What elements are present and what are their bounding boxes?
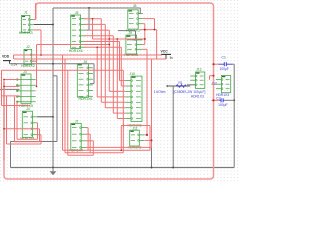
wire J11 pin1	[145, 134, 147, 136]
wire red x119.5	[119, 42, 121, 81]
wire red x147	[146, 49, 148, 135]
wire J12 pin2 stub	[212, 83, 216, 85]
wire J7 pin2	[86, 133, 90, 135]
wire to J10 pin3	[109, 90, 125, 92]
wire into J6 pin4	[90, 83, 94, 85]
connector (None)	[216, 76, 231, 93]
svg-text:100μF: 100μF	[218, 103, 227, 107]
wire red x62.5	[62, 55, 64, 150]
wire J1 pin3	[34, 29, 41, 31]
wire red x90.2	[89, 134, 91, 153]
wire red x209.5	[209, 76, 211, 80]
wire red y30.1	[89, 29, 109, 31]
wire grey x89 to J5 pin3	[88, 8, 90, 30]
junction y47.2/x97.2	[96, 46, 98, 48]
wire red x144.8	[144, 24, 146, 45]
wire J9 pin3	[142, 48, 147, 50]
wire C2 left red	[212, 99, 220, 101]
wire red y150.2	[63, 149, 151, 151]
wire red x109.3	[108, 30, 110, 91]
wire red y155.3	[68, 154, 94, 156]
wire J5 pin1	[85, 18, 102, 20]
VDD stub	[9, 61, 11, 64]
wire grey y141.5	[11, 141, 58, 143]
connector J8 (HDR1X3)	[126, 4, 143, 33]
wire grey top y8	[53, 7, 140, 9]
wire red y141.8	[15, 141, 40, 143]
VCC bar	[161, 53, 171, 55]
wire J4 pin1 to x53	[37, 116, 53, 118]
wire R1 lead grey y86	[167, 85, 191, 87]
svg-text:R1: R1	[178, 81, 182, 85]
wire red big loop (top y3, right x213.5, bottom y179, left x4)	[4, 3, 214, 179]
wire red x151.5 to J11 pin2	[151, 59, 153, 147]
connector J9 (HDR1X3)	[124, 31, 142, 57]
wire J5 pin6	[85, 46, 122, 48]
wire C1 left red	[214, 63, 219, 65]
wire red left x4 overlay	[3, 80, 5, 161]
wire grey into J13 pin3	[187, 84, 196, 86]
wire red y29.6	[140, 29, 157, 31]
wire J11 pin2	[145, 139, 152, 141]
wire red x65	[64, 59, 66, 153]
svg-text:VCC: VCC	[161, 49, 169, 53]
svg-text:J13: J13	[196, 68, 202, 72]
wire J7 pin4 long y147.4	[86, 146, 152, 148]
wire red x37.5	[37, 123, 39, 140]
wire J2 pin2 jog	[32, 60, 37, 62]
wire grey vertical x53	[52, 8, 54, 168]
wire to J10 pin2	[121, 85, 125, 87]
wire red x67.8	[67, 70, 69, 155]
svg-text:J10: J10	[129, 72, 135, 76]
junction C2/x234.2	[233, 99, 235, 101]
wire grey x151.5 low	[151, 147, 153, 167]
wire red x123.3	[122, 70, 124, 153]
wire red x36.5	[36, 45, 38, 87]
wire 3.3V net y63.8	[10, 63, 94, 65]
junction x53/J1p2	[52, 24, 54, 26]
wire red y125.5 J10 label	[121, 125, 150, 127]
svg-text:J12: J12	[212, 81, 217, 85]
wire red x17	[16, 102, 18, 140]
wire red y44.5	[37, 44, 110, 46]
svg-text:HDR1X6: HDR1X6	[69, 49, 83, 53]
junction loop/C2	[212, 99, 214, 101]
wire grey x234.2 right	[233, 64, 235, 167]
junction bus/x173.2	[172, 167, 174, 169]
VDD bar	[3, 60, 11, 62]
wire grey y30.6 J8 label	[118, 30, 136, 32]
wire grey x10.5 down	[10, 142, 12, 168]
svg-text:100μF: 100μF	[219, 67, 228, 71]
wire J8 pin3	[143, 23, 145, 25]
wire red x156.6	[156, 30, 158, 59]
svg-text:[C0805S-JW 100μLF]: [C0805S-JW 100μLF]	[174, 90, 206, 94]
wire red x39.5	[39, 129, 41, 142]
resistor R1	[154, 81, 187, 94]
junction loop/C1	[212, 63, 214, 65]
junction x89/y8	[88, 7, 90, 9]
wire into J8 pin1	[138, 13, 140, 15]
wire red y139.3 J4 label	[17, 138, 38, 140]
wire to J10 pin4	[97, 96, 125, 98]
capacitor C1	[218, 55, 232, 71]
wire C1 right corner	[232, 63, 234, 65]
wire J4 pin4	[37, 134, 41, 136]
wire red y144	[7, 143, 42, 145]
wire to J10 pin5	[101, 101, 125, 103]
wire J8 pin2	[143, 18, 155, 20]
wire red y70.3	[2, 69, 124, 71]
svg-text:J4: J4	[26, 107, 30, 111]
junction x53/y63.8	[52, 63, 54, 65]
wire red x92.5	[92, 19, 94, 39]
wire red x14.5	[14, 97, 16, 142]
wire red y128.8 to J4 pin3	[4, 128, 37, 130]
wire red x117.3	[116, 39, 118, 119]
svg-text:C2: C2	[216, 96, 220, 100]
svg-text:VDD: VDD	[2, 55, 10, 59]
wire red y105.5 J3 label	[2, 105, 31, 107]
junction x4/y128.8	[3, 128, 5, 130]
wire red y39	[93, 38, 145, 40]
wire red x41	[40, 30, 42, 55]
wire red x121.3	[120, 47, 122, 86]
wire J5 pin5	[85, 41, 120, 43]
svg-text:J9: J9	[128, 31, 132, 35]
svg-text:HDR1X6: HDR1X6	[78, 97, 92, 101]
wire red x88.1	[87, 128, 89, 151]
svg-text:HDR1X3: HDR1X3	[19, 31, 33, 35]
wire to J10 pin8	[117, 118, 125, 120]
wire red x13.5 jog	[13, 55, 15, 59]
wire J3 pin2 left	[4, 85, 20, 87]
capacitor C2	[216, 96, 227, 106]
connector J11 (HDR1X2)	[128, 126, 145, 149]
connector J6 (HDR1X6)	[77, 60, 93, 101]
wire J5 pin3 stub	[86, 29, 89, 31]
wire into J9 pin1	[132, 39, 136, 41]
wire J9 pin2	[142, 44, 144, 46]
wire red x1.5	[1, 70, 3, 105]
wire grey x135.5 to J9 pin1	[135, 31, 137, 40]
wire red x113.3	[112, 36, 114, 113]
junction x53/J4p1	[52, 116, 54, 118]
wire grey into J3 pin3	[0, 88, 20, 90]
wire to J10 pin6	[105, 107, 125, 109]
svg-text:J8: J8	[133, 4, 137, 8]
wire grey down to J8 pin1	[139, 8, 141, 14]
junction bus/x53	[52, 167, 54, 169]
connector J10 (HDR1X8)	[125, 72, 142, 128]
wire J4 pin3	[37, 128, 39, 130]
wire red x97.2	[96, 47, 98, 97]
junction R1 lead	[166, 85, 168, 87]
connector J1 (HDR1X3)	[19, 11, 34, 35]
wire to J10 pin7	[113, 112, 125, 114]
wire grey x173.2 R1 to bus	[172, 86, 174, 168]
svg-text:HDR1X2: HDR1X2	[21, 64, 35, 68]
wire J5 pin4	[85, 35, 114, 37]
wire y75.8 jog	[53, 75, 57, 77]
connector J5 (HDR1X6)	[69, 11, 86, 53]
svg-text:5v: 5v	[170, 56, 174, 60]
junction bus/x151.5	[151, 167, 153, 169]
wire red y55	[14, 54, 163, 56]
junction y18.7/x92.5	[92, 18, 94, 20]
svg-text:J1: J1	[24, 11, 28, 15]
wire red x93.3	[92, 141, 94, 156]
wire red x41 low	[40, 135, 42, 144]
wire red x121.3 low	[120, 126, 122, 151]
wire J4 pin2	[36, 122, 38, 124]
svg-text:J11: J11	[132, 126, 137, 130]
VCC stub	[165, 54, 167, 59]
svg-text:1 kOhm: 1 kOhm	[154, 90, 166, 94]
wire J7 pin1	[86, 127, 88, 129]
wire J3 pin1 left	[4, 79, 20, 81]
wire red y59	[14, 58, 166, 60]
wire red J13 top	[210, 75, 214, 77]
connector J4 (HDR1X4)	[20, 107, 37, 140]
wire C2 right grey	[224, 99, 234, 101]
wire ground bus y167.5	[11, 167, 235, 169]
svg-text:HDR1X4: HDR1X4	[20, 137, 34, 141]
svg-text:J2: J2	[26, 45, 30, 49]
svg-text:C1: C1	[222, 55, 226, 59]
wire red x101.3	[100, 19, 102, 103]
wire grey x94 down	[93, 64, 95, 84]
junction y29.6/x144.8	[144, 29, 146, 31]
ground symbol	[52, 168, 54, 172]
wire red x6.5	[6, 96, 8, 144]
wire J1 pin1	[34, 19, 36, 21]
junction y39/x144.8	[144, 38, 146, 40]
junction J11p2	[151, 139, 153, 141]
svg-text:J5: J5	[75, 11, 79, 15]
wire grey x57 down	[56, 76, 58, 142]
connector J3 (HDR1X5)	[16, 70, 35, 108]
svg-text:HDR1X3: HDR1X3	[191, 95, 204, 99]
wire J7 pin3	[86, 140, 93, 142]
wire red x35.7	[35, 3, 37, 20]
connector J2 (HDR1X2)	[21, 45, 36, 68]
connector J7 (HDR1X4)	[69, 119, 86, 152]
wire J1 pin2 to x53	[34, 24, 53, 26]
wire red x150	[149, 126, 151, 151]
wire red x105.3	[104, 24, 106, 107]
wire red y152.8	[65, 152, 123, 154]
junction J11p1	[146, 134, 148, 136]
wire J3 pin4 left	[2, 95, 20, 97]
wire to J10 pin1	[120, 80, 126, 82]
svg-text:J7: J7	[75, 119, 79, 123]
wire J5 pin2	[85, 23, 106, 25]
connector J13 (None)	[190, 68, 205, 89]
junction loop/J13	[213, 75, 215, 77]
wire red x154.5	[154, 19, 156, 30]
